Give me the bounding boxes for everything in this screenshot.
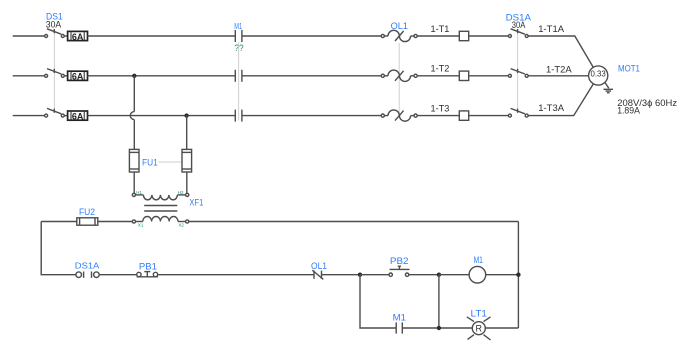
wire L2 DS1A to motor xyxy=(528,75,588,77)
contactor M1 pole 1 xyxy=(235,30,242,42)
wire FU2 to X1 xyxy=(98,221,133,223)
svg-text:6A: 6A xyxy=(72,32,84,42)
right rail xyxy=(517,222,519,329)
svg-text:30A: 30A xyxy=(512,20,526,30)
OL1 NC contact xyxy=(312,270,323,279)
svg-text:M1: M1 xyxy=(234,21,242,31)
wire X2 to right rail xyxy=(189,221,519,223)
svg-text:MOT1: MOT1 xyxy=(618,64,640,74)
svg-text:6A: 6A xyxy=(72,72,84,82)
wire L1 OL1 to terminal xyxy=(417,35,459,37)
svg-text:1-T3A: 1-T3A xyxy=(538,103,564,113)
fuse FU2 xyxy=(77,218,98,225)
node right rail rung xyxy=(516,273,520,277)
wire FU1 left to H1 xyxy=(133,172,135,193)
DS1 pole 3 xyxy=(45,108,65,117)
wire tap from L2 down to FU1 left xyxy=(133,76,135,112)
wire PB1 to OL1 contact xyxy=(158,274,314,276)
svg-text:1-T2: 1-T2 xyxy=(431,64,450,75)
XF1 core xyxy=(144,206,177,212)
wire L3 fuse to M1 xyxy=(88,115,236,117)
wire node to M1 coil xyxy=(439,274,469,276)
DS1A aux contact xyxy=(76,272,99,278)
pushbutton PB2 (NO) xyxy=(389,266,410,276)
wire OL1 to node xyxy=(322,274,361,276)
terminal block line 2 xyxy=(459,71,468,80)
OL1 linkage line xyxy=(398,43,400,113)
wire M1 aux to node xyxy=(402,327,472,329)
svg-text:FU2: FU2 xyxy=(79,207,95,217)
wire tap from L3 down to FU1 right xyxy=(186,116,188,150)
node branch left xyxy=(358,273,362,277)
wire L3 left stub xyxy=(13,115,45,117)
transformer XF1 secondary xyxy=(132,217,189,224)
contactor M1 pole 2 xyxy=(235,70,242,82)
coil M1 xyxy=(469,266,486,283)
pushbutton PB1 (NC) xyxy=(137,272,158,277)
wire FU1 right to H2 xyxy=(186,172,188,193)
wire L3 M1 to OL1 xyxy=(242,115,381,117)
contact M1 aux (NO) xyxy=(396,322,402,333)
wire L1 M1 to OL1 xyxy=(242,35,381,37)
motor MOT1 xyxy=(589,66,608,85)
svg-text:DS1A: DS1A xyxy=(75,260,100,270)
wire L1 fuse to M1 xyxy=(88,35,236,37)
contactor M1 pole 3 xyxy=(235,110,242,122)
svg-text:H2: H2 xyxy=(178,190,184,195)
dropper left of parallel branch xyxy=(360,275,396,328)
wire L1 terminal to DS1A xyxy=(469,35,509,37)
DS1 pole 2 xyxy=(45,69,65,78)
svg-text:PB1: PB1 xyxy=(139,261,157,271)
wire LT1 to right rail xyxy=(485,327,518,329)
svg-text:FU1: FU1 xyxy=(142,158,158,168)
svg-text:30A: 30A xyxy=(46,19,61,29)
overload OL1 element 2 xyxy=(381,70,417,81)
M1 linkage line xyxy=(238,42,240,121)
wire hop to FU1 left fuse xyxy=(133,120,135,150)
svg-text:PB2: PB2 xyxy=(390,256,409,266)
svg-text:X1: X1 xyxy=(138,222,144,227)
fuse FU1 right cartridge xyxy=(182,149,192,172)
fuse 6A line 2 xyxy=(64,71,87,81)
wire left rail to FU2 xyxy=(41,221,77,223)
svg-text:H1: H1 xyxy=(136,190,142,195)
svg-text:XF1: XF1 xyxy=(189,198,203,208)
wire coil to right rail xyxy=(486,274,519,276)
ground xyxy=(604,83,614,93)
svg-text:M1: M1 xyxy=(474,255,483,265)
fuse 6A line 3 xyxy=(64,111,87,121)
wire node to PB2 xyxy=(360,274,389,276)
DS1 pole 1 xyxy=(45,29,65,38)
wire L2 terminal to DS1A xyxy=(469,75,509,77)
wire L2 OL1 to terminal xyxy=(417,75,459,77)
wire PB2 to node xyxy=(409,274,439,276)
fuse FU1 left cartridge xyxy=(129,149,139,172)
svg-text:M1: M1 xyxy=(393,313,406,323)
crossover hop over L3 xyxy=(130,112,134,120)
wire L3 terminal to DS1A xyxy=(469,115,509,117)
transformer XF1 primary xyxy=(132,193,189,200)
fuse 6A line 1 xyxy=(64,31,87,41)
svg-text:1-T1A: 1-T1A xyxy=(538,24,564,34)
wire L1 left stub xyxy=(13,35,45,37)
svg-text:1.89A: 1.89A xyxy=(617,106,640,117)
svg-text:X2: X2 xyxy=(179,222,185,227)
wire L2 left stub xyxy=(13,75,45,77)
FU1 leader line xyxy=(159,161,182,163)
wire L2 fuse to M1 xyxy=(88,75,236,77)
node LT branch top xyxy=(437,273,441,277)
svg-text:6A: 6A xyxy=(72,111,84,121)
svg-text:R: R xyxy=(476,324,483,334)
svg-text:1-T3: 1-T3 xyxy=(431,104,450,115)
wire L1 DS1A to motor xyxy=(528,36,593,67)
left rail xyxy=(41,222,76,275)
DS1A linkage line xyxy=(517,32,519,113)
svg-text:LT1: LT1 xyxy=(471,308,488,318)
DS1 linkage line xyxy=(53,32,55,113)
svg-text:OL1: OL1 xyxy=(311,261,327,271)
svg-text:0.33: 0.33 xyxy=(591,69,607,78)
node LT branch bottom xyxy=(437,326,441,330)
terminal block line 3 xyxy=(459,111,468,120)
DS1A pole 3 xyxy=(508,108,528,117)
overload OL1 element 3 xyxy=(381,110,417,121)
node on L3 for transformer tap xyxy=(184,113,188,117)
node on L2 for transformer tap xyxy=(132,74,136,78)
terminal block line 1 xyxy=(459,31,468,40)
wire L3 DS1A to motor xyxy=(528,84,593,116)
pilot light LT1 xyxy=(467,317,491,340)
DS1A pole 2 xyxy=(508,69,528,78)
svg-text:1-T2A: 1-T2A xyxy=(546,64,572,74)
wire L3 OL1 to terminal xyxy=(417,115,459,117)
wire L2 M1 to OL1 xyxy=(242,75,381,77)
wire DS1A aux to PB1 xyxy=(99,274,136,276)
DS1A pole 1 xyxy=(508,29,528,38)
dropper middle of parallel branch xyxy=(438,275,440,328)
overload OL1 element 1 xyxy=(381,30,417,41)
svg-text:1-T1: 1-T1 xyxy=(431,24,450,35)
